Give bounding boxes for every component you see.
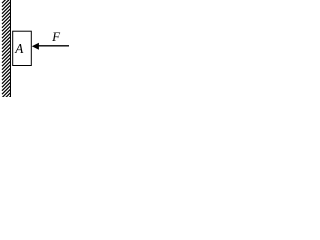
- wall hatching: [2, 0, 11, 105]
- force arrow shaft: [38, 45, 70, 47]
- wall line: [10, 0, 12, 97]
- svg-text:F: F: [51, 29, 61, 44]
- arrowhead: [32, 43, 39, 50]
- svg-text:A: A: [14, 41, 24, 56]
- block A: [13, 31, 32, 65]
